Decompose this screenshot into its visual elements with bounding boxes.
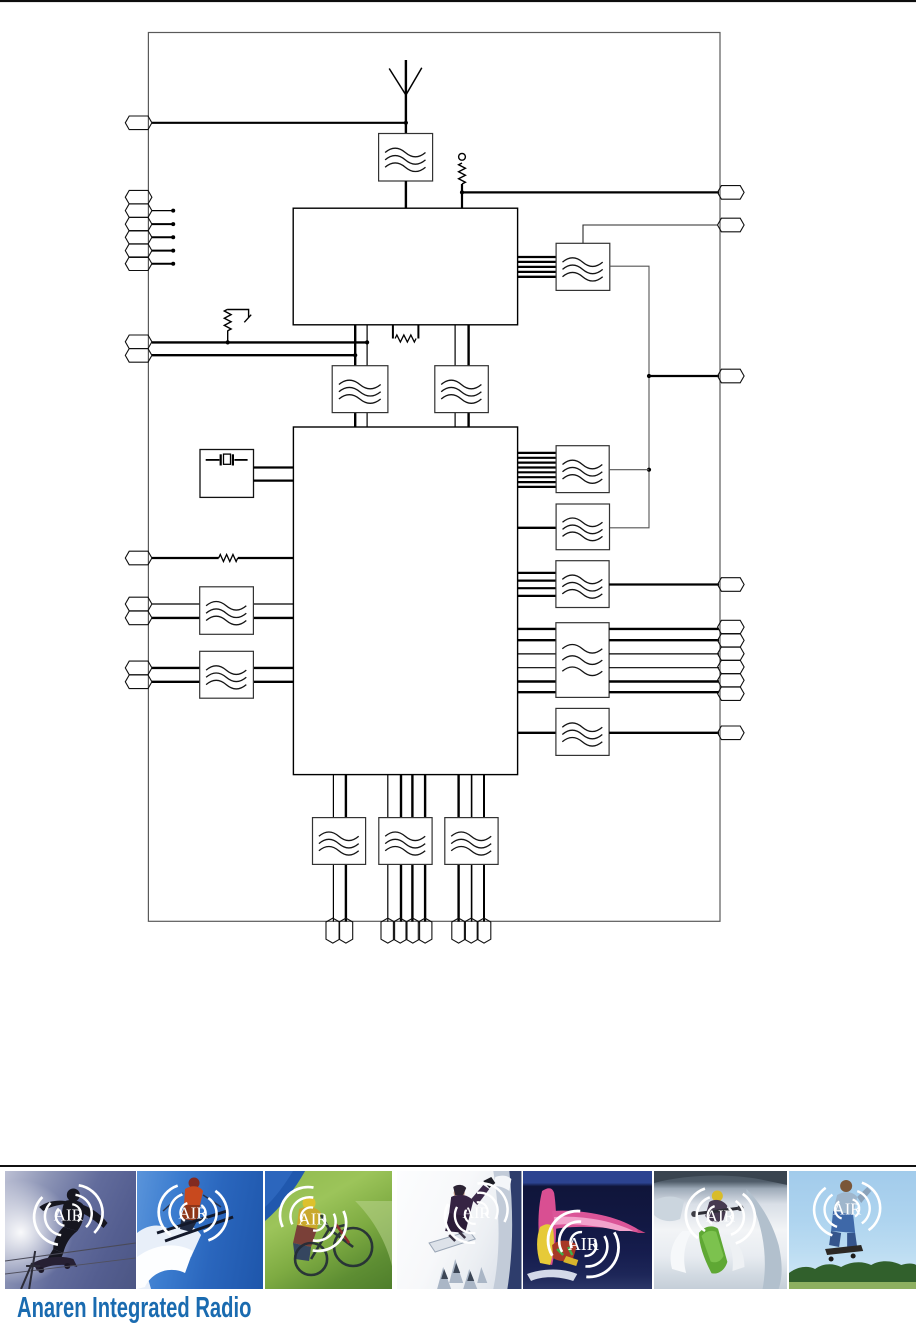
wire FL14 to bottom port at x=484.0: [483, 864, 485, 921]
wire U2 to FL12 at x=345.9: [345, 775, 347, 818]
wire FL13 to bottom port at x=387.8: [387, 864, 389, 921]
filter FL9: [556, 561, 609, 608]
node R2 junction: [226, 340, 230, 344]
svg-text:AIR: AIR: [54, 1206, 84, 1225]
port P2-3 (left control stack): [125, 217, 152, 231]
port P15-4 (bottom): [418, 918, 432, 943]
filter FL2 (TX filter): [556, 243, 610, 290]
stub wire of port P2-2: [152, 210, 173, 212]
node R1/port junction: [460, 190, 464, 194]
wire P5-1 to FL5: [152, 603, 200, 605]
IC U1 (RF transceiver front-end block): [293, 208, 517, 325]
port P2-6 (left control stack): [125, 257, 152, 271]
wire U2 to FL14 at x=458.6: [457, 775, 459, 818]
wire U2 to FL8: [518, 527, 557, 529]
wire U2 to FL13 at x=401.0: [400, 775, 402, 818]
footer wordmark: Anaren Integrated Radio: [17, 1292, 251, 1325]
wire Y1 out a to U2: [254, 466, 294, 468]
wire Y1 out b to U2: [254, 480, 294, 482]
bus U1 to FL2 (5 lines): [518, 257, 557, 277]
filter FL14: [445, 818, 498, 865]
node on U1 bottom pin b: [365, 340, 369, 344]
net FL7 output to LO rail: [609, 469, 649, 471]
photo windsurfer: [523, 1171, 653, 1289]
IC U2 (baseband/IF block): [293, 427, 517, 775]
wire port P3-1 to U1 pin net: [152, 341, 367, 343]
node on U1 bottom pin a: [353, 353, 357, 357]
resistor R4 (series, port P4 to U2): [152, 555, 294, 562]
svg-text:AIR: AIR: [463, 1205, 491, 1222]
photo kayaker: [654, 1171, 788, 1289]
stub wire of port P2-3: [152, 223, 173, 225]
stub wire of port P2-5: [152, 250, 173, 252]
port P14-1 (bottom): [326, 918, 340, 943]
page top rule: [0, 0, 916, 2]
wire P6-2 to FL6: [152, 681, 200, 683]
svg-text:AIR: AIR: [568, 1234, 599, 1254]
wire P5-2 to FL5: [152, 617, 200, 619]
port P3-2: [125, 349, 152, 363]
wire FL9 to port P11: [609, 583, 719, 585]
resistor R3 (bias, under U1): [393, 325, 419, 342]
wire FL3 to U2 pin a: [354, 413, 356, 427]
bus U2 to FL10 (6 lines): [518, 629, 556, 692]
wire FL5 to U2 b: [253, 617, 293, 619]
bus U2 to FL7 (8 lines): [518, 453, 557, 487]
wire FL3 to U2 pin b: [366, 413, 368, 427]
port P12-4: [718, 660, 745, 674]
port P15-1 (bottom): [381, 918, 395, 943]
port P12-5: [718, 674, 745, 688]
filter FL8: [556, 504, 609, 550]
svg-text:AIR: AIR: [178, 1204, 208, 1223]
port P16-3 (bottom): [477, 918, 491, 943]
wire port P3-2 to U1 pin net: [152, 354, 355, 356]
port P12-3: [718, 647, 745, 661]
wire U1 pin c to FL4: [454, 325, 456, 366]
wire FL13 to bottom port at x=401.0: [400, 864, 402, 921]
crystal Y1 (reference oscillator): [200, 450, 254, 498]
wire FL14 to bottom port at x=458.6: [457, 864, 459, 921]
filter FL4: [435, 366, 489, 413]
wire FL12 to bottom port at x=345.9: [345, 864, 347, 921]
wire R1 node to port P8: [462, 191, 719, 193]
filter FL6: [200, 651, 254, 698]
wire FL6 to U2 b: [253, 681, 293, 683]
wire U1 pin b to FL3: [366, 325, 368, 366]
wire U2 to FL11: [518, 732, 556, 734]
port P3-1: [125, 335, 152, 349]
port P12-2: [718, 634, 745, 648]
bus FL10 to ports P12 (6 lines): [609, 629, 719, 692]
port P2-2 (left control stack): [125, 204, 152, 218]
photo snowboarder: [397, 1171, 521, 1289]
port P16-1 (bottom): [452, 918, 466, 943]
photo strip: [0, 1171, 916, 1289]
photo jumping boy: [789, 1171, 916, 1289]
port P15-3 (bottom): [406, 918, 420, 943]
port P15-2 (bottom): [393, 918, 407, 943]
filter FL12: [313, 818, 366, 865]
filter FL13: [379, 818, 432, 865]
port P11: [718, 578, 745, 592]
wire FL1 to U1: [405, 181, 407, 208]
terminal dot P2-3: [171, 222, 175, 226]
resistor R2 (trimmer): [224, 309, 251, 342]
wire U1 pin d to FL4: [467, 325, 469, 366]
wire FL12 to bottom port at x=333.4: [332, 864, 334, 921]
wire FL5 to U2 a: [253, 603, 293, 605]
wire U2 to FL13 at x=387.8: [387, 775, 389, 818]
wire port P9 to FL2 top pin: [583, 225, 718, 243]
wire FL13 to bottom port at x=412.4: [411, 864, 413, 921]
resistor R1 (pull-up with terminal): [459, 153, 466, 208]
port P2-5 (left control stack): [125, 244, 152, 258]
port P9: [718, 218, 745, 232]
photo skateboarder: [5, 1171, 136, 1289]
wire U2 to FL12 at x=333.4: [332, 775, 334, 818]
port P12-6: [718, 687, 745, 701]
port P16-2 (bottom): [464, 918, 478, 943]
wire FL4 to U2 pin c: [454, 413, 456, 427]
wire U2 to FL14 at x=484.0: [483, 775, 485, 818]
antenna ANT1: [389, 60, 422, 134]
port P8 (right, top): [718, 186, 745, 200]
bus U2 to FL9 (4 lines): [518, 573, 556, 596]
terminal dot P2-5: [171, 249, 175, 253]
port P4: [125, 551, 152, 565]
wire RF in from port P1 to antenna node: [152, 122, 406, 124]
port P12-1: [718, 620, 745, 634]
stub wire of port P2-6: [152, 263, 173, 265]
filter FL3: [332, 366, 388, 413]
photo skier: [137, 1171, 263, 1289]
filter FL1 (antenna filter): [379, 134, 433, 182]
filter FL10 (data bus filter): [556, 623, 609, 698]
net FL2 output to LO rail: [610, 266, 650, 528]
port P10: [718, 369, 745, 383]
port P2-1 (left control stack): [125, 190, 152, 204]
port P2-4 (left control stack): [125, 231, 152, 245]
terminal dot P2-6: [171, 262, 175, 266]
svg-text:AIR: AIR: [705, 1207, 735, 1226]
schematic outer frame: [148, 33, 720, 922]
stub wire of port P2-4: [152, 236, 173, 238]
filter FL7: [556, 446, 609, 493]
wire U2 to FL14 at x=471.6: [471, 775, 473, 818]
port P5-2: [125, 611, 152, 625]
wire U2 to FL13 at x=425.1: [424, 775, 426, 818]
wire FL14 to bottom port at x=471.6: [471, 864, 473, 921]
port P6-2: [125, 675, 152, 689]
photo mountain biker: [265, 1171, 392, 1289]
svg-text:AIR: AIR: [298, 1210, 328, 1229]
node antenna junction: [404, 121, 408, 125]
svg-text:AIR: AIR: [833, 1199, 861, 1218]
port P5-1: [125, 597, 152, 611]
port P1 (left RF): [125, 116, 152, 130]
wire FL11 to port P13: [609, 732, 719, 734]
wire LO rail to port P10: [649, 375, 719, 377]
terminal dot P2-4: [171, 235, 175, 239]
wire U1 pin a to FL3: [354, 325, 356, 366]
terminal dot P2-2: [171, 209, 175, 213]
port P14-2 (bottom): [339, 918, 353, 943]
wire U2 to FL13 at x=412.4: [411, 775, 413, 818]
node LO rail / FL6 junction: [647, 468, 651, 472]
port P6-1: [125, 661, 152, 675]
wire FL6 to U2 a: [253, 667, 293, 669]
node LO rail / port junction: [647, 374, 651, 378]
wire P6-1 to FL6: [152, 667, 200, 669]
photo strip rule: [0, 1165, 916, 1167]
wire FL4 to U2 pin d: [467, 413, 469, 427]
filter FL5: [200, 587, 254, 635]
filter FL11: [556, 708, 609, 755]
port P13: [718, 726, 745, 740]
wire FL13 to bottom port at x=425.1: [424, 864, 426, 921]
